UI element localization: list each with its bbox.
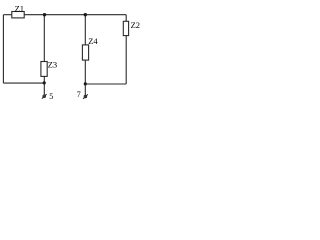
junction node A (rail/Z3) xyxy=(43,13,46,16)
terminal 7 xyxy=(83,94,88,99)
wire: Z3 stem lower to terminal xyxy=(43,76,45,94)
wire: bottom-right horizontal xyxy=(85,83,126,85)
svg-text:Z3: Z3 xyxy=(48,60,57,70)
wire: bottom-left horizontal xyxy=(3,82,44,84)
wire: right vertical xyxy=(125,36,127,84)
resistor Z1 xyxy=(12,12,24,18)
junction node B (rail/Z4) xyxy=(84,13,87,16)
wire: Z4 stem lower to terminal xyxy=(84,60,86,95)
resistor Z4 xyxy=(82,45,88,60)
wire: right vertical stub above Z2 xyxy=(125,15,127,22)
svg-text:Z1: Z1 xyxy=(15,3,24,13)
svg-text:5: 5 xyxy=(49,92,53,101)
wire: left vertical xyxy=(2,15,4,83)
resistor Z3 xyxy=(41,62,47,77)
wire: top rail center/right segment xyxy=(24,14,126,16)
svg-text:Z4: Z4 xyxy=(88,36,98,46)
svg-text:7: 7 xyxy=(77,90,81,99)
wire: top rail left segment xyxy=(3,14,11,16)
resistor Z2 xyxy=(123,21,128,35)
wire: Z3 stem upper xyxy=(43,15,45,62)
wire: Z4 stem upper xyxy=(84,15,86,45)
junction node D (Z4 bottom) xyxy=(84,82,87,85)
terminal 5 xyxy=(42,94,47,99)
junction node C (Z3 bottom) xyxy=(43,81,46,84)
svg-text:Z2: Z2 xyxy=(131,20,140,30)
